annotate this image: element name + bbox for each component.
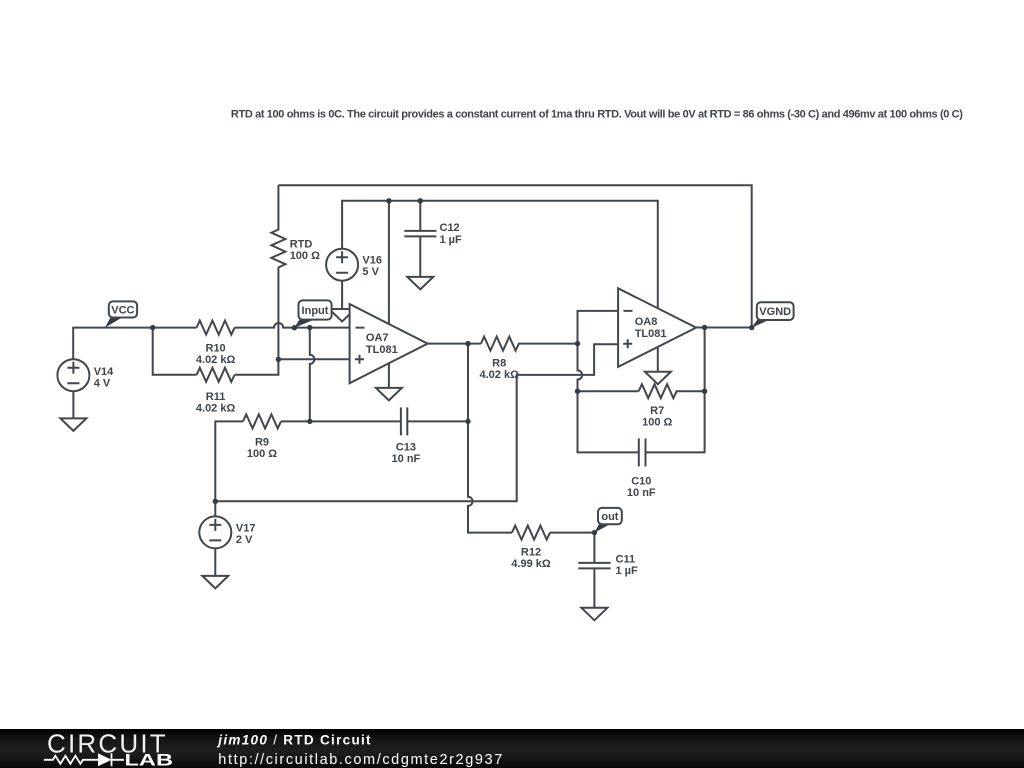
svg-text:V14: V14 (94, 366, 114, 378)
ground below C12 (407, 277, 433, 290)
svg-text:out: out (601, 511, 618, 523)
svg-text:R7: R7 (650, 405, 664, 417)
svg-text:R12: R12 (521, 547, 541, 559)
wire OA8 output row (696, 327, 752, 329)
svg-text:RTD: RTD (290, 239, 313, 251)
resistor R12 (512, 526, 550, 540)
op-amp OA8 (618, 288, 696, 367)
resistor R9 (243, 414, 281, 428)
svg-text:1 µF: 1 µF (440, 234, 463, 246)
svg-text:4.02 kΩ: 4.02 kΩ (196, 403, 236, 415)
voltage source V16 (326, 249, 358, 281)
voltage source V14 (57, 359, 89, 391)
node flag VCC (105, 301, 137, 327)
wire R9 C13 row (215, 421, 468, 501)
svg-text:10 nF: 10 nF (627, 487, 656, 499)
capacitor C11 with leads (578, 533, 610, 608)
svg-text:10 nF: 10 nF (392, 453, 421, 465)
svg-text:4.02 kΩ: 4.02 kΩ (479, 369, 519, 381)
svg-text:C11: C11 (616, 553, 636, 565)
wire R11 branch from VCC node down and to plus node (153, 328, 279, 375)
svg-text:V16: V16 (362, 255, 382, 267)
svg-text:C13: C13 (396, 442, 416, 454)
resistor R10 (197, 321, 235, 335)
svg-text:TL081: TL081 (635, 328, 667, 340)
svg-text:VGND: VGND (759, 306, 791, 318)
svg-text:R10: R10 (206, 343, 226, 355)
node flag VGND (752, 302, 794, 327)
wire OA8 minus input riser (578, 311, 619, 344)
svg-text:100 Ω: 100 Ω (247, 448, 277, 460)
svg-text:V17: V17 (236, 522, 256, 534)
svg-text:LAB: LAB (125, 750, 174, 768)
ground below C11 (581, 608, 607, 621)
svg-text:OA7: OA7 (366, 332, 389, 344)
op-amp OA7 (350, 304, 428, 383)
svg-text:100 Ω: 100 Ω (642, 417, 672, 429)
svg-text:TL081: TL081 (366, 344, 398, 356)
resistor R7 (578, 384, 705, 398)
svg-text:R9: R9 (255, 436, 269, 448)
ground below V16 (329, 309, 355, 322)
svg-text:4.02 kΩ: 4.02 kΩ (196, 354, 236, 366)
wire plus row to OA7 (278, 358, 349, 360)
svg-text:C12: C12 (440, 222, 460, 234)
svg-text:5 V: 5 V (362, 266, 379, 278)
capacitor C12 with leads (404, 201, 436, 277)
wire VCC/minus row with hop over RTD line (73, 323, 349, 359)
junction node dots (150, 198, 754, 535)
resistor R8 (481, 337, 519, 351)
svg-text:4 V: 4 V (94, 378, 111, 390)
voltage source V17 (199, 516, 231, 548)
svg-text:RTD at 100 ohms is 0C. The cir: RTD at 100 ohms is 0C. The circuit provi… (231, 109, 963, 121)
wire top feedback net from RTD top to VGND corner (278, 185, 751, 327)
wire minus node down through hop to R7 row and C10 loop (578, 328, 705, 453)
svg-text:R8: R8 (492, 357, 506, 369)
svg-text:OA8: OA8 (635, 316, 658, 328)
ground below V17 (202, 576, 228, 589)
svg-text:100 Ω: 100 Ω (290, 250, 320, 262)
svg-text:http://circuitlab.com/cdgmte2r: http://circuitlab.com/cdgmte2r2g937 (218, 752, 502, 768)
wire output node down to R12 with hop over V17 row (468, 344, 594, 533)
ground below V14 (60, 418, 86, 431)
svg-text:Input: Input (302, 305, 329, 317)
resistor RTD vertical with leads (271, 185, 285, 359)
wire V16 top lead to supply rail y=200.8 and down to OA8 V+ pin (342, 201, 658, 308)
node flag Input (294, 300, 331, 327)
svg-text:VCC: VCC (111, 305, 134, 317)
svg-text:jim100 / RTD Circuit: jim100 / RTD Circuit (216, 733, 372, 748)
node flag out (594, 508, 621, 533)
wire OA7 output to R8 (428, 343, 578, 345)
capacitor C10 plates (639, 438, 646, 466)
wire OA7 V+ power stub (388, 201, 390, 325)
wire from minus node down to R9 row with hop over plus row (310, 328, 315, 422)
svg-text:4.99 kΩ: 4.99 kΩ (511, 558, 551, 570)
ground below OA8 (645, 372, 671, 385)
wire V17 row to OA8 plus input (215, 344, 618, 516)
CircuitLab logo resistor-diode symbol (44, 753, 124, 766)
svg-text:R11: R11 (206, 391, 226, 403)
svg-text:C10: C10 (631, 475, 651, 487)
svg-text:1 µF: 1 µF (616, 565, 639, 577)
capacitor C13 plates (401, 407, 407, 435)
resistor R11 (197, 368, 235, 382)
svg-text:2 V: 2 V (236, 534, 253, 546)
ground below OA7 (376, 388, 402, 401)
